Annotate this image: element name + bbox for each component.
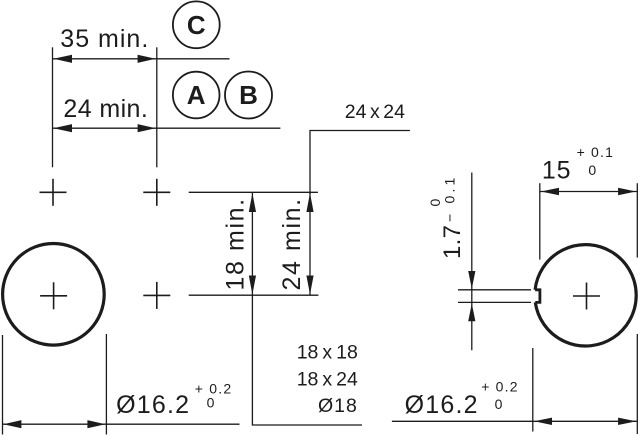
svg-text:35 min.: 35 min.: [60, 25, 149, 53]
arrowhead left 24 min: [54, 124, 73, 132]
extension line right of 35/24 min dims: [156, 47, 158, 167]
dimension Ø16.2 bottom-right: extension lines: [532, 348, 534, 432]
svg-text:Ø16.2: Ø16.2: [405, 391, 479, 419]
arrowhead right 24 min: [138, 124, 156, 132]
svg-text:0: 0: [588, 162, 596, 178]
center mark plus top-right: [143, 179, 170, 206]
svg-text:24x24: 24x24: [345, 101, 405, 123]
center cross of right hole: [573, 283, 600, 310]
dimension 15 line: [540, 191, 638, 193]
leader line under sizes list, continues from 18 min dim line: [252, 295, 362, 425]
svg-text:15: 15: [542, 157, 571, 185]
dimension line bottom-left with leader to text: [3, 423, 240, 425]
svg-text:0: 0: [207, 395, 215, 411]
dimension 1.7 vertical line: [471, 173, 473, 351]
reference line top row (hole centres): [189, 191, 318, 193]
arrowhead left 35 min: [54, 55, 73, 63]
svg-text:+ 0.2: + 0.2: [481, 379, 519, 395]
reference line bottom row (hole centres): [189, 294, 319, 296]
keyway slot extension lines: [458, 289, 531, 291]
svg-text:C: C: [187, 10, 206, 40]
hole circle left (Ø16.2): [3, 243, 105, 345]
balloon B: [225, 72, 272, 119]
svg-text:Ø18: Ø18: [318, 395, 358, 417]
svg-text:1.7: 1.7: [439, 225, 466, 259]
svg-text:+ 0.1: + 0.1: [577, 144, 615, 160]
balloon A: [173, 72, 220, 119]
dimension line bottom-right with leader from text: [392, 420, 637, 422]
svg-text:− 0.1: − 0.1: [441, 174, 457, 222]
svg-text:18x18: 18x18: [297, 341, 358, 363]
leader bracket for 24 x 24: [310, 131, 410, 195]
vertical dimension 18 min.: [251, 192, 253, 295]
keyway notch: [535, 290, 540, 303]
svg-text:Ø16.2: Ø16.2: [116, 391, 190, 419]
center cross of left hole: [40, 282, 67, 309]
svg-text:24 min.: 24 min.: [278, 197, 306, 290]
dimension line 24 min. with leader to balloons A,B: [53, 127, 281, 129]
svg-text:18 min.: 18 min.: [221, 197, 249, 290]
vertical dimension 24 min.: [309, 192, 311, 295]
dimension Ø16.2 bottom-left: extension lines: [2, 335, 4, 435]
dimension line 35 min. with leader to balloon C: [53, 58, 230, 60]
svg-text:B: B: [239, 80, 258, 110]
extension line left of 35/24 min dims: [52, 47, 54, 167]
balloon C: [173, 1, 220, 48]
svg-text:0: 0: [495, 396, 503, 412]
center mark plus bottom-right: [143, 282, 170, 309]
svg-text:A: A: [187, 80, 206, 110]
center mark plus top-left: [40, 179, 67, 206]
hole circle right with keyway (Ø16.2): [535, 245, 636, 346]
dimension 15: extension lines: [539, 183, 541, 259]
svg-text:24 min.: 24 min.: [63, 95, 148, 123]
arrowhead right 35 min: [138, 55, 156, 63]
svg-text:18x24: 18x24: [297, 368, 358, 390]
